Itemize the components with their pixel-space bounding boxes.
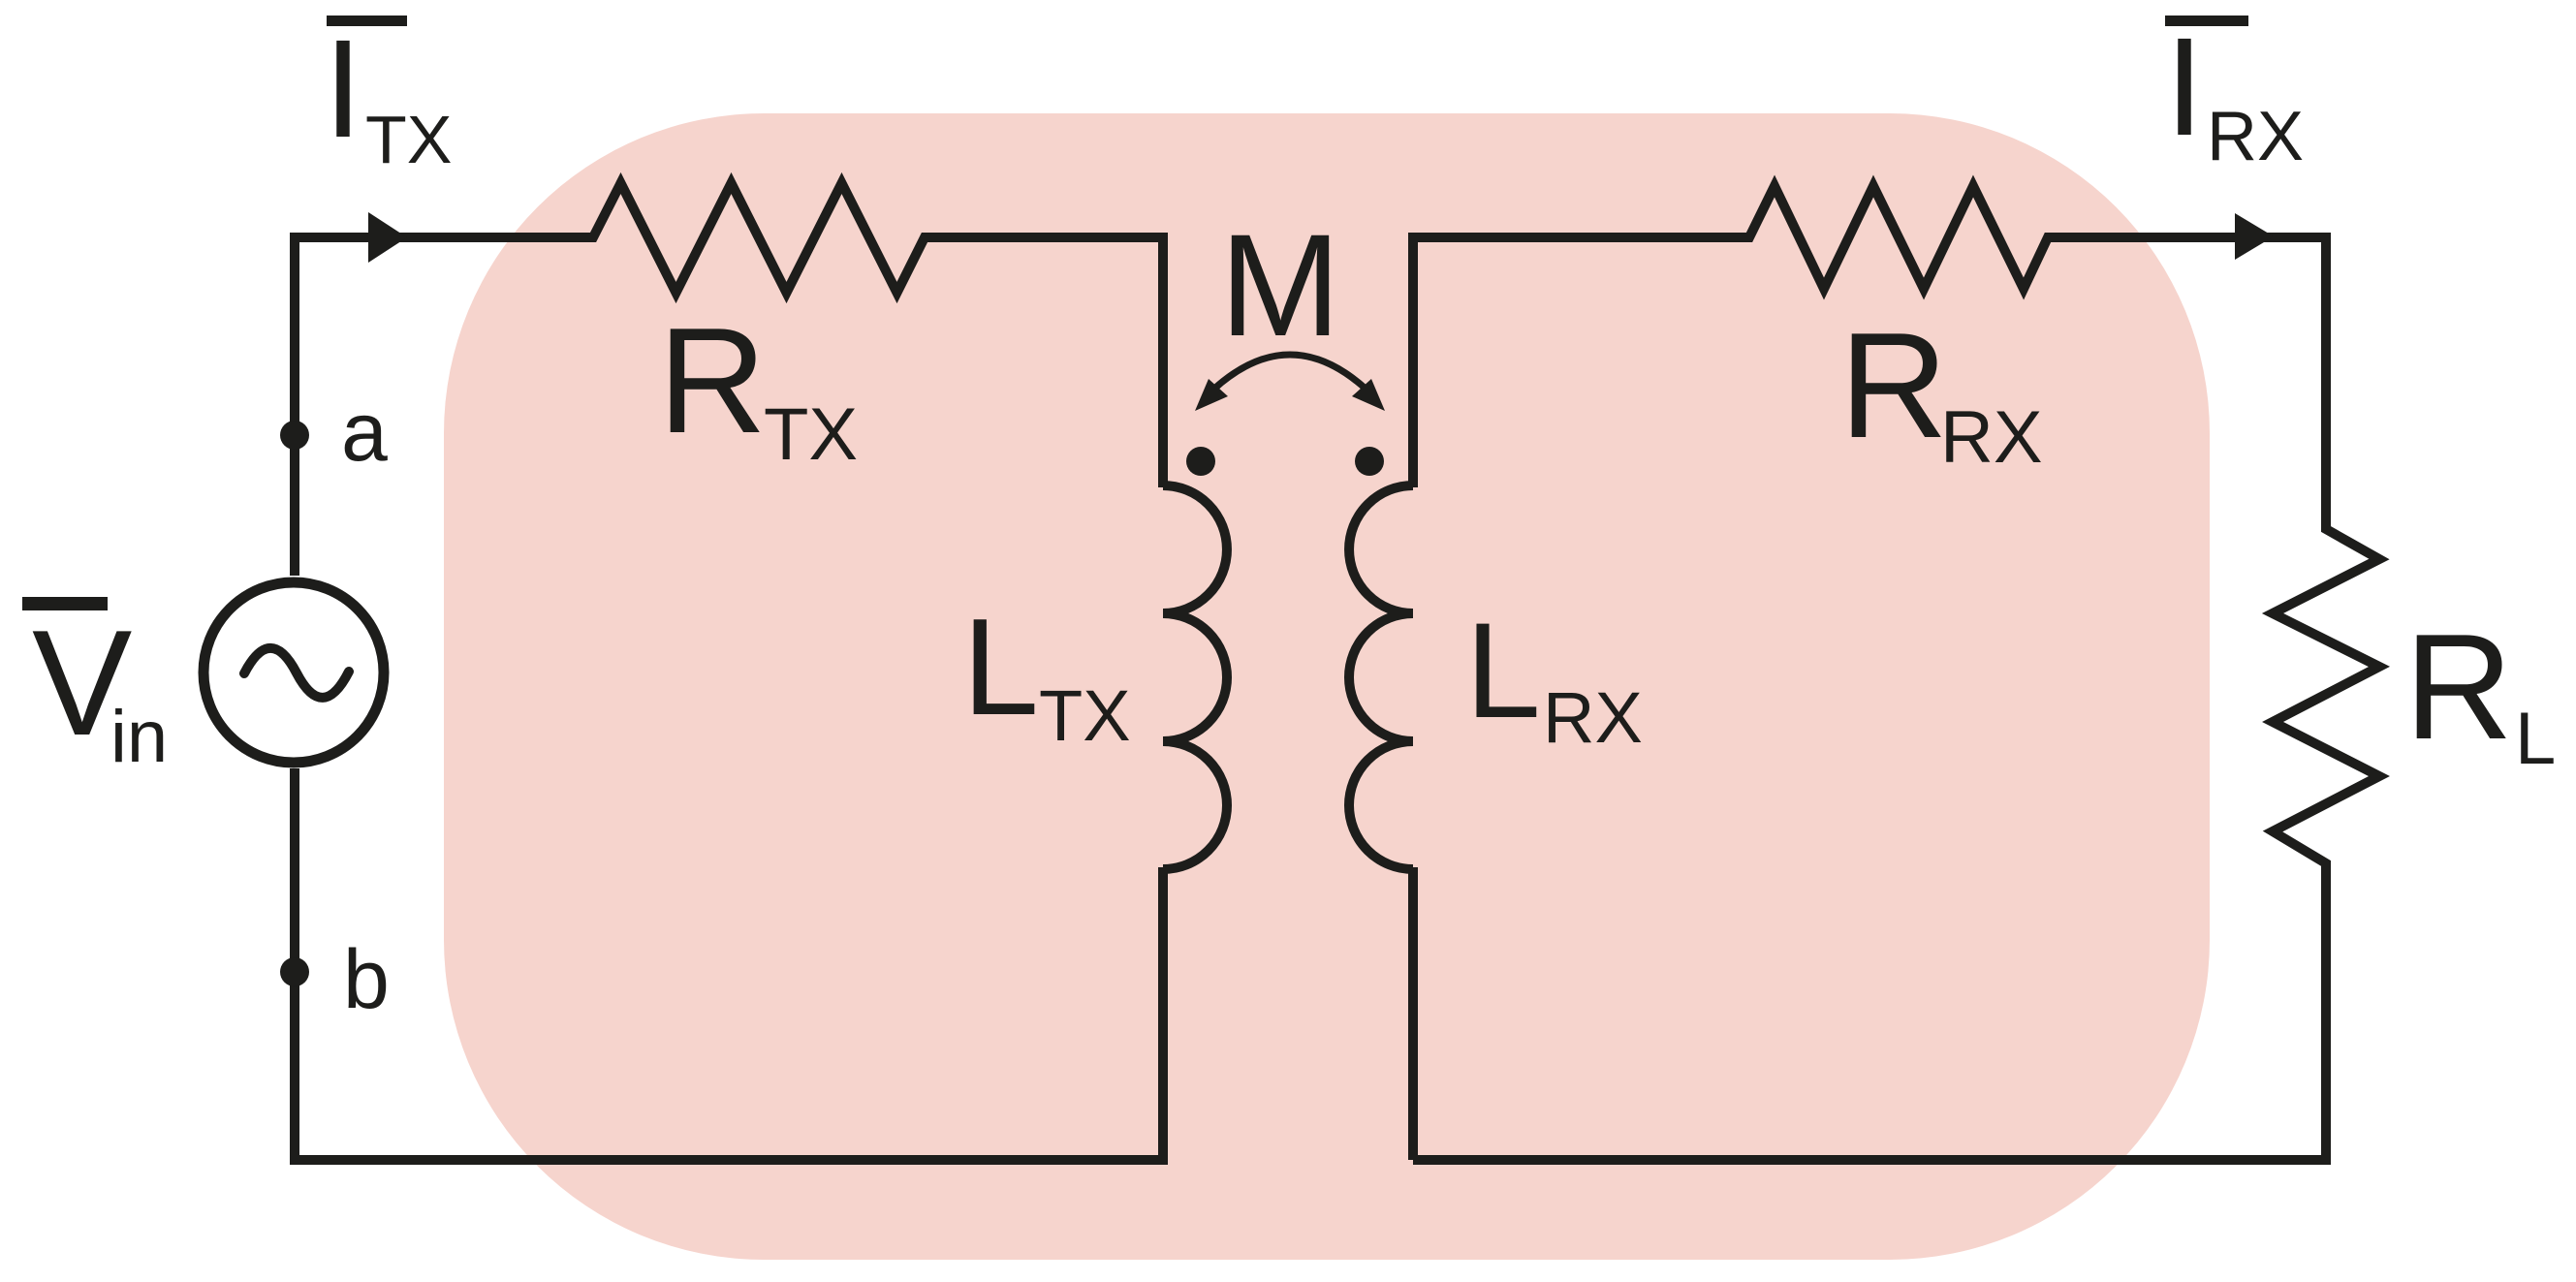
wire: source top to node a to R_TX	[295, 237, 593, 576]
svg-text:TX: TX	[1039, 675, 1131, 756]
svg-text:a: a	[341, 386, 388, 479]
label V_in	[22, 597, 168, 778]
label R_RX	[1839, 301, 2043, 479]
inductor L_RX	[1349, 485, 1413, 869]
svg-text:R: R	[658, 297, 767, 464]
highlight region (coupled coils)	[444, 113, 2210, 1260]
wire: L_RX top to R_RX	[1413, 237, 1749, 487]
resistor R_L	[2273, 521, 2379, 871]
svg-text:R: R	[1839, 301, 1948, 469]
current arrow I_RX	[2235, 213, 2274, 260]
label R_L	[2404, 603, 2556, 780]
label R_TX	[658, 297, 858, 476]
label L_RX	[1465, 594, 1643, 758]
wire: L_RX bottom lead	[1408, 867, 1418, 1160]
polarity dot TX	[1186, 447, 1215, 476]
node b	[280, 957, 309, 986]
svg-text:RX: RX	[1940, 396, 2043, 479]
svg-text:I: I	[324, 11, 362, 167]
svg-text:L: L	[2515, 698, 2556, 780]
label L_TX	[962, 590, 1131, 756]
svg-text:R: R	[2404, 603, 2513, 770]
resistor R_RX	[1742, 186, 2056, 289]
wire: L_TX bottom lead	[1158, 867, 1168, 1160]
wire: R_TX to L_TX	[925, 237, 1163, 487]
svg-text:L: L	[1465, 594, 1541, 746]
svg-text:M: M	[1220, 203, 1341, 366]
svg-text:TX: TX	[365, 102, 452, 177]
label I_RX	[2165, 9, 2304, 175]
polarity dot RX	[1355, 447, 1384, 476]
svg-text:RX: RX	[1543, 677, 1643, 758]
svg-text:b: b	[343, 933, 390, 1026]
svg-text:RX: RX	[2207, 98, 2304, 175]
wire: bottom RX return	[1413, 1155, 2331, 1165]
wire: R_L bottom lead	[2321, 861, 2331, 1160]
wire: R_RX to R_L top	[2048, 237, 2326, 531]
wire: bottom TX return	[295, 768, 1168, 1160]
svg-text:I: I	[2165, 9, 2204, 165]
label I_TX	[324, 11, 452, 177]
node a	[280, 421, 309, 450]
resistor R_TX	[585, 183, 932, 293]
mutual coupling arrow M	[1195, 355, 1385, 411]
svg-text:TX: TX	[764, 393, 858, 476]
AC source V_in	[204, 582, 384, 763]
inductor L_TX	[1163, 485, 1227, 869]
svg-text:in: in	[110, 696, 168, 778]
current arrow I_TX	[368, 212, 407, 263]
svg-text:L: L	[962, 590, 1039, 744]
